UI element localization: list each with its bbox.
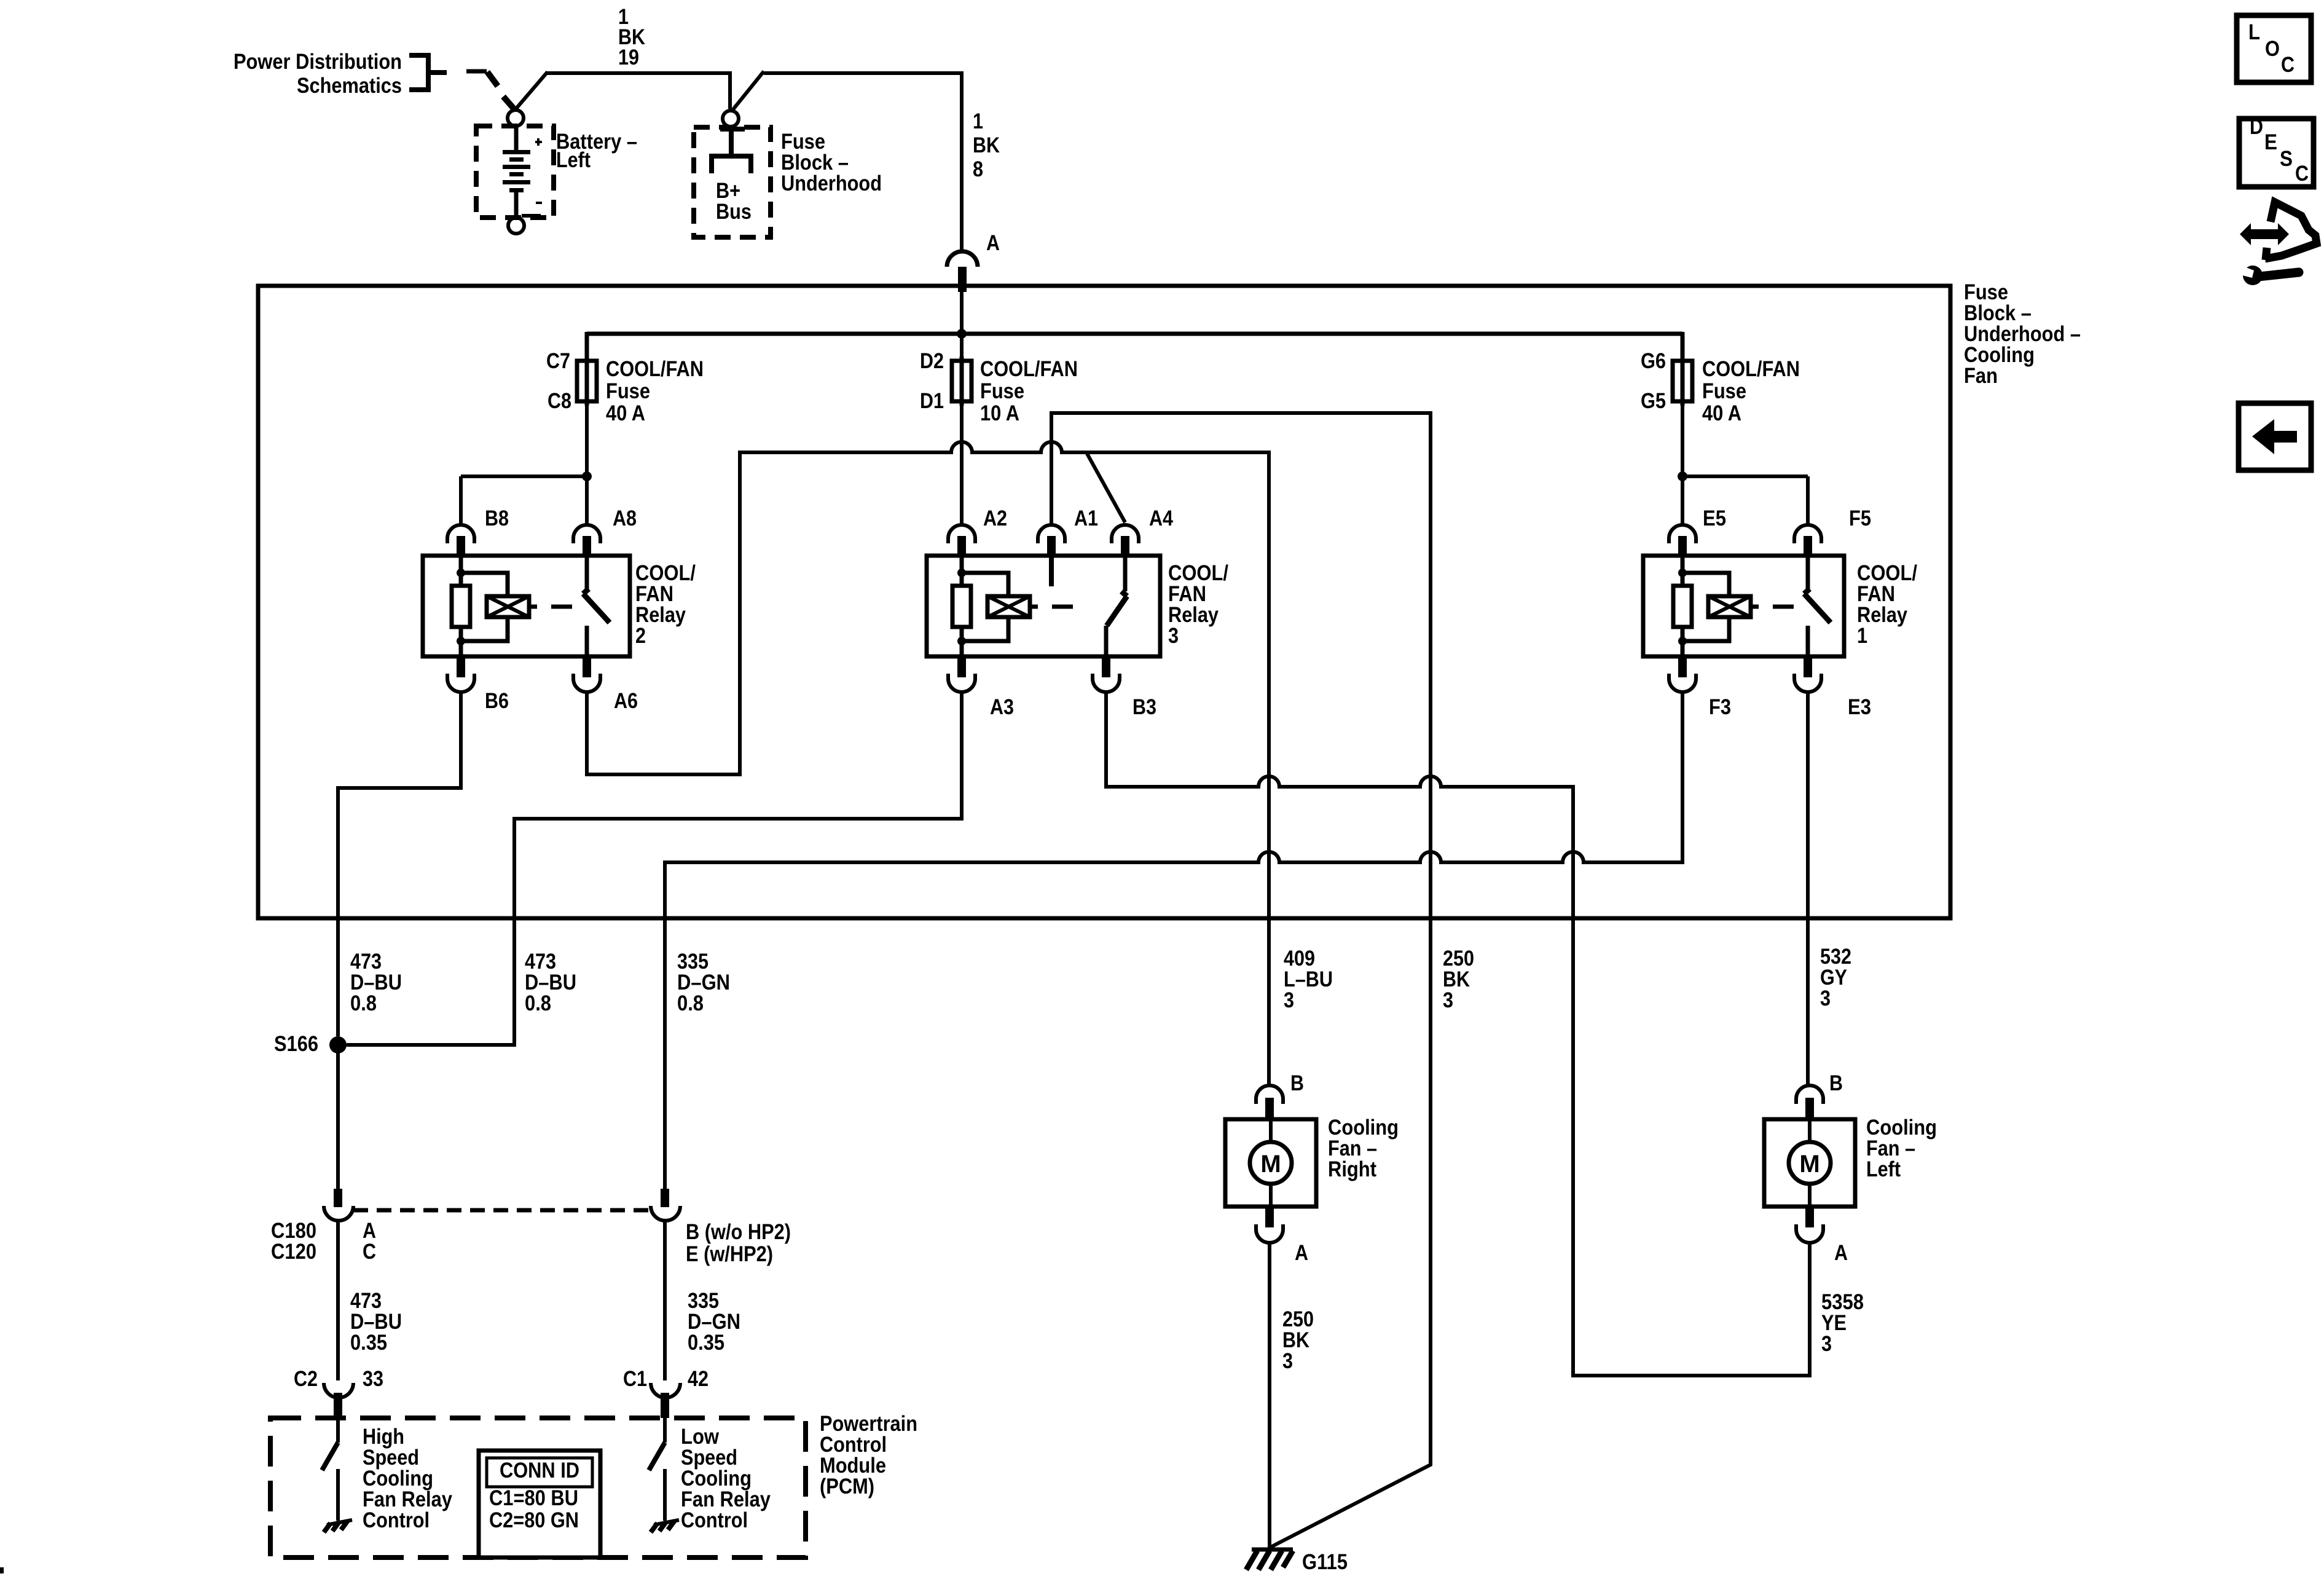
wire: fan right A to ground G115 (250 BK 3)	[1268, 1244, 1271, 1548]
page corner mark	[0, 1567, 4, 1573]
CONN ID table box	[479, 1451, 600, 1557]
wire: relay 3 A1 to ground net 250 BK	[1051, 413, 1431, 1547]
wire: relay 2 B6 to splice branch (473 D-BU)	[338, 692, 461, 1036]
svg-text:F3: F3	[1709, 695, 1731, 719]
battery minus sign	[536, 202, 542, 204]
svg-text:A3: A3	[990, 695, 1014, 719]
svg-text:S: S	[2280, 147, 2293, 171]
wire: 1 BK 8 feed to fuse block	[764, 73, 962, 252]
svg-text:E3: E3	[1848, 695, 1871, 719]
connector cavity F3	[1669, 674, 1696, 692]
battery internal wires	[514, 126, 519, 218]
connector pin B6	[457, 655, 465, 677]
svg-text:C1=80 BU: C1=80 BU	[489, 1486, 578, 1510]
svg-text:M: M	[1799, 1151, 1820, 1178]
svg-text:Schematics: Schematics	[297, 74, 402, 98]
connector cavity A3	[948, 674, 975, 692]
svg-text:C1: C1	[623, 1367, 647, 1391]
connector pin B3	[1102, 655, 1110, 677]
wire: S166 to connector C180 (473 D-BU 0.35)	[336, 1045, 340, 1189]
connector cavity A8	[573, 525, 600, 543]
fuse D2-D1 COOL/FAN 10A body	[952, 361, 972, 401]
wire: relay 1 F3 to PCM low speed control (335 D-GN)	[665, 692, 1682, 1189]
connector cavity A1	[1038, 525, 1065, 543]
PCM low speed driver stub	[663, 1418, 667, 1443]
B+ bus bar symbol	[712, 156, 751, 173]
svg-text:B3: B3	[1133, 695, 1156, 719]
svg-text:M: M	[1260, 1151, 1281, 1178]
svg-text:0.8: 0.8	[350, 991, 377, 1015]
wire: feed drop to fuse G6	[1681, 332, 1685, 361]
wire: feed drop to fuse C7	[585, 332, 589, 361]
connector cavity C2 pin 33	[324, 1383, 353, 1398]
connector cavity C1 pin 42	[651, 1383, 680, 1398]
motor internal leads	[1269, 1121, 1273, 1205]
svg-text:40 A: 40 A	[606, 401, 645, 425]
svg-text:3: 3	[1821, 1332, 1832, 1356]
svg-text:3: 3	[1443, 988, 1453, 1012]
ground G115 symbol	[1252, 1548, 1293, 1552]
relay 2 junction coil bottom	[457, 637, 465, 645]
svg-text:3: 3	[1168, 624, 1179, 648]
battery plus sign	[535, 138, 542, 146]
svg-text:A2: A2	[983, 506, 1007, 530]
svg-text:8: 8	[973, 157, 983, 181]
svg-text:Bus: Bus	[716, 200, 752, 224]
motor internal leads	[1808, 1121, 1812, 1205]
back arrow icon	[2239, 403, 2311, 470]
wire: PCM high speed driver to ground	[336, 1469, 340, 1521]
svg-text:O: O	[2265, 37, 2280, 61]
relay 3 terminal A1 internal stub	[1049, 557, 1054, 586]
relay 2 switch common stub	[585, 557, 589, 591]
svg-text:3: 3	[1284, 988, 1294, 1012]
svg-text:G5: G5	[1641, 389, 1666, 413]
svg-text:E5: E5	[1703, 506, 1726, 530]
svg-text:F5: F5	[1849, 506, 1871, 530]
battery plates	[503, 150, 530, 154]
svg-text:Control: Control	[363, 1508, 430, 1532]
relay 1 switch contact stub	[1806, 626, 1810, 655]
connector pin E5	[1678, 536, 1687, 557]
svg-text:E: E	[2264, 130, 2277, 154]
motor cooling fan right M circle	[1250, 1142, 1292, 1184]
svg-text:COOL/FAN: COOL/FAN	[606, 357, 704, 381]
junction feed bus / fuse D2	[957, 329, 967, 339]
PCM dashed box	[270, 1418, 806, 1557]
broken link slash 1	[487, 72, 498, 86]
wire: relay 2 A6 riser to net A4/409	[587, 442, 1269, 1085]
fuse G6-G5 COOL/FAN 40A body	[1673, 361, 1692, 401]
relay 1 junction coil top	[1678, 569, 1687, 577]
svg-text:COOL/FAN: COOL/FAN	[980, 357, 1078, 381]
wire relay 2 coil branch	[461, 573, 508, 641]
connector cavity B3	[1093, 674, 1120, 692]
svg-text:A: A	[1295, 1241, 1308, 1265]
svg-text:CONN ID: CONN ID	[500, 1459, 579, 1483]
svg-text:42: 42	[688, 1367, 709, 1391]
connector cavity B8	[447, 525, 474, 543]
connector cavity E5	[1669, 525, 1696, 543]
relay 1 coil stub	[1751, 605, 1759, 609]
wrench	[2243, 266, 2263, 285]
connector pin C180 A	[334, 1189, 342, 1207]
PCM high speed driver stub	[336, 1418, 340, 1443]
fuse block underhood cooling fan box	[258, 286, 1950, 918]
connector pin A1	[1047, 536, 1056, 557]
broken link slash 2	[503, 96, 516, 111]
svg-text:C: C	[363, 1240, 376, 1264]
connector pin A2	[957, 536, 966, 557]
svg-text:1: 1	[1857, 624, 1867, 648]
relay COOL/FAN Relay 2 box	[423, 556, 630, 656]
svg-text:Fuse: Fuse	[606, 379, 650, 403]
svg-text:S166: S166	[274, 1032, 318, 1056]
relay 1 actuator dashed link	[1773, 605, 1794, 609]
svg-text:10 A: 10 A	[980, 401, 1019, 425]
connector pin A8	[583, 536, 591, 557]
wire: diagonal branch to relay 3 A4	[1087, 454, 1125, 522]
connector pin cooling fan left A	[1805, 1205, 1814, 1227]
svg-text:A: A	[986, 231, 1000, 255]
svg-text:3: 3	[1282, 1349, 1293, 1373]
relay 3 switch blade	[1107, 591, 1127, 626]
ground (PCM internal, high speed)	[327, 1520, 352, 1525]
svg-text:D: D	[2250, 115, 2263, 139]
relay 2 switch blade	[583, 589, 610, 623]
svg-text:A: A	[1834, 1241, 1848, 1265]
wire: battery negative stub	[522, 214, 541, 218]
svg-text:A8: A8	[613, 506, 637, 530]
connector pin B8	[457, 536, 465, 557]
connector pin F3	[1678, 655, 1687, 677]
svg-text:B: B	[1290, 1071, 1304, 1095]
ground (PCM internal, low speed)	[654, 1520, 679, 1525]
connector pin C2 33	[334, 1393, 342, 1418]
svg-text:A1: A1	[1074, 506, 1098, 530]
svg-text:C: C	[2295, 162, 2309, 186]
PCM high speed driver switch blade	[322, 1443, 338, 1470]
wire relay 3 coil branch	[962, 573, 1008, 641]
resistor relay 1 parallel resistor	[1673, 586, 1692, 627]
wire: B+ bus diagonal riser	[733, 71, 764, 109]
svg-text:E (w/HP2): E (w/HP2)	[686, 1242, 773, 1266]
wire: broken link dash	[466, 69, 487, 74]
connector cavity cooling fan right A	[1256, 1224, 1283, 1243]
relay COOL/FAN Relay 3 box	[927, 556, 1160, 656]
wire: fuse C8 output to relay 2	[461, 401, 587, 524]
wire: feed drop from connector A to fuse D2	[960, 284, 964, 361]
inline connector dashed line C180/C120	[353, 1208, 649, 1213]
CONN ID header cell	[487, 1458, 592, 1487]
svg-text:Left: Left	[556, 148, 591, 172]
relay 2 junction coil top	[457, 569, 465, 577]
wire: relay 3 B3 to cooling fan left A (5358 YE)	[1106, 692, 1810, 1376]
svg-text:3: 3	[1820, 986, 1831, 1010]
relay 3 actuator dashed link	[1052, 605, 1073, 609]
relay COOL/FAN Relay 1 box	[1643, 556, 1844, 656]
svg-text:B8: B8	[485, 506, 509, 530]
wire: fuse D1 output to relay 3 A2	[960, 401, 964, 524]
svg-text:COOL/FAN: COOL/FAN	[1702, 357, 1800, 381]
connector pin A4	[1121, 536, 1129, 557]
connector cavity A4	[1112, 525, 1139, 543]
connector pin C1 B/E	[661, 1189, 669, 1207]
connector cavity F5	[1794, 525, 1821, 543]
relay 3 junction coil top	[957, 569, 966, 577]
svg-text:40 A: 40 A	[1702, 401, 1741, 425]
svg-text:B: B	[1829, 1071, 1843, 1095]
svg-text:Power Distribution: Power Distribution	[234, 50, 402, 74]
relay 3 switch common stub	[1123, 557, 1128, 591]
svg-text:(PCM): (PCM)	[820, 1475, 874, 1498]
fuse D2-D1 COOL/FAN 10A element	[960, 356, 964, 406]
PCM low speed driver switch blade	[649, 1443, 665, 1470]
wire: fuse G5 output to relay 1	[1682, 401, 1808, 524]
connector cavity cooling fan left B	[1796, 1085, 1823, 1104]
fuse C7-C8 COOL/FAN 40A element	[585, 356, 589, 406]
svg-text:0.35: 0.35	[688, 1331, 724, 1355]
DESC icon box	[2239, 119, 2314, 187]
motor cooling fan right box	[1225, 1119, 1316, 1207]
svg-text:Fuse: Fuse	[1702, 379, 1746, 403]
B+ bus terminal circle	[723, 111, 739, 127]
off-page bracket symbol	[409, 55, 447, 90]
svg-text:A4: A4	[1149, 506, 1173, 530]
svg-text:C120: C120	[271, 1240, 316, 1264]
svg-text:C8: C8	[548, 389, 571, 413]
connector cavity A6	[573, 674, 600, 692]
wire: PCM low speed driver to ground	[663, 1469, 667, 1521]
connector pin cooling fan right A	[1265, 1205, 1274, 1227]
splice S166	[329, 1036, 347, 1053]
connector cavity C180 A	[324, 1206, 353, 1221]
connector pin A3	[957, 655, 966, 677]
svg-text:0.35: 0.35	[350, 1331, 387, 1355]
relay 2 actuator dashed link	[551, 605, 572, 609]
svg-text:Fan: Fan	[1964, 364, 1998, 388]
connector cavity cooling fan left A	[1796, 1224, 1823, 1243]
connector pin C1 42	[661, 1393, 669, 1418]
connector pin A6	[583, 655, 591, 677]
battery Battery-Left dashed outline	[476, 126, 554, 218]
svg-text:C2=80 GN: C2=80 GN	[489, 1508, 579, 1532]
svg-text:Fuse: Fuse	[980, 379, 1024, 403]
relay 3 coil-side conductor	[960, 557, 964, 655]
relay 2 coil (box with X)	[487, 596, 529, 617]
relay 2 coil-side conductor	[459, 557, 463, 655]
svg-text:Underhood: Underhood	[781, 171, 882, 195]
svg-text:C2: C2	[294, 1367, 318, 1391]
wire: battery positive diagonal riser	[514, 72, 548, 111]
wire: 1 BK 19 feed	[546, 73, 730, 109]
wire relay 1 coil branch	[1682, 573, 1729, 641]
relay 1 junction coil bottom	[1678, 637, 1687, 645]
vehicle/wrench navigation icon: double arrow	[2240, 223, 2289, 245]
svg-text:0.8: 0.8	[677, 991, 704, 1015]
resistor relay 2 parallel resistor	[452, 586, 470, 627]
relay 3 coil stub	[1030, 605, 1038, 609]
fuse G6-G5 COOL/FAN 40A element	[1681, 356, 1685, 406]
connector pin F5	[1804, 536, 1812, 557]
B+ bus pin	[720, 127, 745, 132]
relay 3 junction coil bottom	[957, 637, 966, 645]
svg-text:1: 1	[973, 109, 983, 133]
svg-text:C: C	[2281, 53, 2295, 77]
svg-text:L: L	[2248, 20, 2260, 44]
junction fuse G5 / relay 1 pins	[1678, 471, 1687, 481]
svg-text:Left: Left	[1866, 1157, 1901, 1181]
svg-text:C7: C7	[546, 349, 570, 373]
relay 3 switch contact stub	[1104, 626, 1109, 655]
connector cavity C1 B/E	[651, 1206, 680, 1221]
wire: relay 1 E3 to cooling fan left B (532 GY)	[1806, 692, 1810, 1085]
svg-text:19: 19	[618, 45, 639, 69]
relay 1 switch blade	[1804, 589, 1831, 623]
junction fuse C8 / relay 2 pins	[582, 471, 592, 481]
svg-text:A6: A6	[614, 689, 638, 713]
wire: 473 D-BU 0.35 to PCM	[336, 1222, 340, 1380]
connector pin E3	[1804, 655, 1812, 677]
relay 3 coil (box with X)	[987, 596, 1030, 617]
battery positive terminal circle	[508, 110, 524, 126]
connector A at fuse block top	[947, 251, 978, 267]
motor cooling fan left M circle	[1789, 1142, 1831, 1184]
svg-text:B6: B6	[485, 689, 509, 713]
relay 1 coil (box with X)	[1708, 596, 1751, 617]
wire: relay 3 A3 to splice branch (473 D-BU)	[347, 692, 962, 1045]
svg-text:BK: BK	[973, 133, 1000, 157]
battery negative terminal circle	[508, 218, 524, 234]
fuse C7-C8 COOL/FAN 40A body	[577, 361, 597, 401]
connector cavity cooling fan right B	[1256, 1085, 1283, 1104]
relay 2 coil stub	[529, 605, 537, 609]
connector cavity E3	[1794, 674, 1821, 692]
relay 1 coil-side conductor	[1681, 557, 1685, 655]
fuse block B+ Bus dashed outline	[694, 127, 771, 237]
LOC icon box	[2237, 15, 2311, 82]
svg-text:Control: Control	[681, 1508, 748, 1532]
connector cavity A2	[948, 525, 975, 543]
svg-text:G115: G115	[1302, 1550, 1348, 1574]
relay 1 switch common stub	[1806, 557, 1810, 591]
relay 2 switch contact stub	[585, 626, 589, 655]
svg-text:D1: D1	[920, 389, 944, 413]
svg-text:G6: G6	[1641, 349, 1666, 373]
svg-text:B (w/o HP2): B (w/o HP2)	[686, 1220, 791, 1244]
resistor relay 3 parallel resistor	[952, 586, 971, 627]
svg-text:2: 2	[635, 624, 646, 648]
wire: main feed bus inside fuse block	[587, 332, 1682, 336]
wire: 335 D-GN 0.35 to PCM	[663, 1222, 667, 1380]
svg-text:0.8: 0.8	[525, 991, 551, 1015]
svg-text:Right: Right	[1328, 1157, 1376, 1181]
connector cavity B6	[447, 674, 474, 692]
vehicle silhouette outline	[2265, 202, 2317, 259]
svg-text:D2: D2	[920, 349, 944, 373]
svg-text:33: 33	[363, 1367, 383, 1391]
motor cooling fan left box	[1764, 1119, 1855, 1207]
